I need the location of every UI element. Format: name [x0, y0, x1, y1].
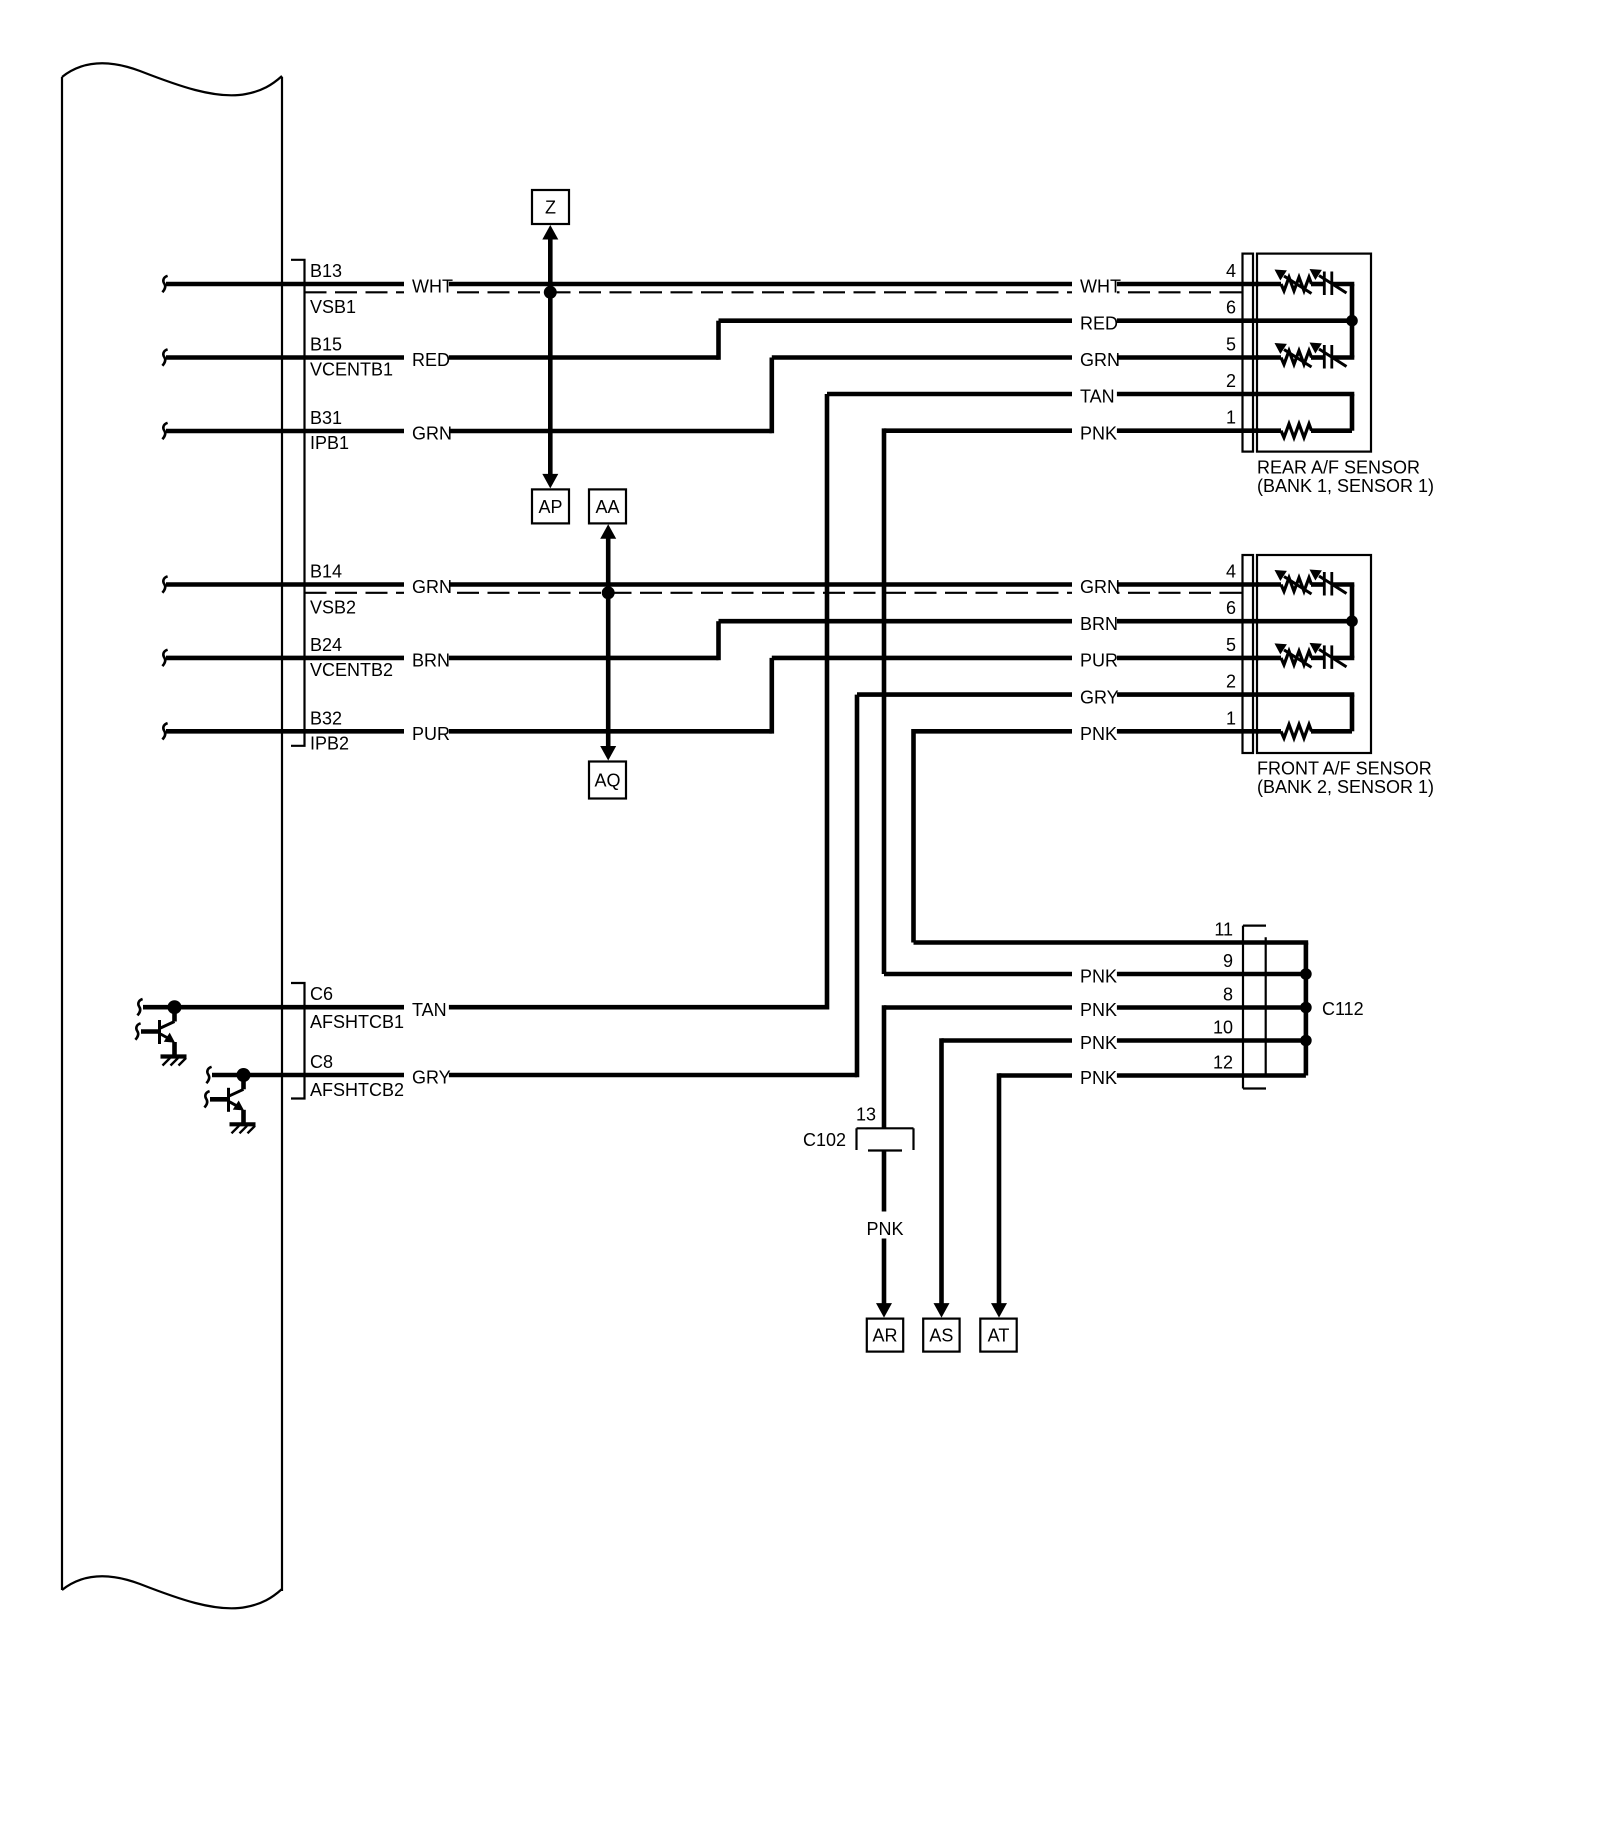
off-page connector AT	[980, 1319, 1016, 1352]
svg-text:GRY: GRY	[412, 1068, 451, 1088]
wire color label GRN (right) y=357.5	[1072, 346, 1117, 370]
arrowhead down into AP	[542, 474, 558, 489]
svg-text:13: 13	[856, 1105, 876, 1125]
wire color label WHT at B13	[404, 273, 449, 297]
svg-text:GRY: GRY	[1080, 687, 1119, 707]
svg-text:12: 12	[1213, 1053, 1233, 1073]
wire color label RED (right) y=320.7	[1072, 309, 1117, 333]
svg-text:PUR: PUR	[1080, 651, 1118, 671]
wire color label GRN at B31	[404, 420, 449, 444]
shield drain line AA to AQ	[606, 536, 611, 749]
arrowhead up into AA	[600, 524, 616, 539]
wire color label PNK (right) y=1075.5	[1072, 1064, 1117, 1088]
svg-text:AQ: AQ	[594, 771, 620, 791]
wire color label PNK (right) y=1040.5	[1072, 1029, 1117, 1053]
wire color label PUR at B32	[404, 720, 449, 744]
wire color label PNK (right) y=731.3	[1072, 720, 1117, 744]
arrowhead down into AQ	[600, 746, 616, 761]
svg-text:GRN: GRN	[412, 577, 452, 597]
svg-text:2: 2	[1226, 371, 1236, 391]
ECU connector B bracket (pins B13-B32)	[291, 260, 305, 746]
svg-text:PNK: PNK	[1080, 1033, 1117, 1053]
svg-text:B14: B14	[310, 562, 342, 582]
wire PNK C112 pin 10 to AS	[942, 1038, 1306, 1306]
wire PNK C112 pin 12 to AT	[999, 1073, 1306, 1306]
shield (dashed) line for VSB1/WHT wire	[305, 291, 1243, 293]
svg-text:4: 4	[1226, 261, 1236, 281]
junction dot shield to Z/AP drain	[544, 286, 557, 299]
svg-text:RED: RED	[412, 350, 450, 370]
wire color label PUR (right) y=657.9	[1072, 646, 1117, 670]
wire B32 IPB2 PUR (ECU to front sensor pin 5)	[162, 658, 1259, 740]
off-page connector Z	[532, 190, 569, 224]
rear A/F sensor box	[1257, 254, 1371, 452]
svg-text:C8: C8	[310, 1052, 333, 1072]
wire PNK C112 pin 8 to C102 pin 13 and AR	[884, 1005, 1306, 1306]
rear A/F sensor connector	[1243, 254, 1254, 452]
wire PNK rear sensor pin 1 to C112 pin 9	[884, 428, 1306, 974]
svg-text:AR: AR	[872, 1326, 897, 1346]
C112 internal bus joining pins 11,9,8,10,12	[1304, 943, 1309, 1076]
shield drain line Z to AP	[548, 238, 553, 477]
svg-text:PNK: PNK	[1080, 967, 1117, 987]
svg-text:AS: AS	[929, 1326, 953, 1346]
connector C112 symbol	[1243, 926, 1266, 1089]
front A/F sensor connector	[1243, 555, 1254, 753]
svg-text:PNK: PNK	[1080, 423, 1117, 443]
wire color label RED at B15	[404, 346, 449, 370]
svg-text:9: 9	[1223, 951, 1233, 971]
svg-text:5: 5	[1226, 635, 1236, 655]
wire PNK front sensor pin 1 to C112 pin 11	[914, 729, 1309, 943]
svg-text:5: 5	[1226, 335, 1236, 355]
svg-text:PNK: PNK	[867, 1219, 904, 1239]
svg-text:AP: AP	[538, 497, 562, 517]
arrowhead down into AS	[934, 1303, 950, 1318]
front sensor heater resistor (pins 1-2)	[1257, 725, 1352, 739]
front A/F sensor cell B (pins 5-6): sensor cell (variable resistor + cell electrodes)	[1257, 638, 1354, 669]
arrowhead down into AT	[991, 1303, 1007, 1318]
wire color label PNK (right) y=1007.5	[1072, 996, 1117, 1020]
svg-text:2: 2	[1226, 672, 1236, 692]
wire B15 VCENTB1 RED (ECU to rear sensor pin 6)	[162, 321, 1352, 366]
wire C8 AFSHTCB2 GRY (ECU to front sensor pin 2)	[206, 695, 1354, 1084]
wire B24 VCENTB2 BRN (ECU to front sensor pin 6)	[162, 621, 1352, 666]
svg-text:B31: B31	[310, 408, 342, 428]
wire color label GRY (right) y=694.6	[1072, 683, 1117, 707]
svg-text:AA: AA	[595, 497, 619, 517]
junction dot front sensor pins 4-5-6	[1346, 615, 1358, 627]
svg-text:WHT: WHT	[1080, 277, 1121, 297]
svg-text:(BANK 1, SENSOR 1): (BANK 1, SENSOR 1)	[1257, 476, 1434, 496]
wire color label GRY at C8	[404, 1064, 449, 1088]
wire color label BRN at B24	[404, 646, 449, 670]
junction dot C112 pin 10 on bus	[1300, 1035, 1312, 1047]
front A/F sensor cell A (pins 4-6): sensor cell (variable resistor + cell electrodes)	[1257, 564, 1354, 595]
off-page connector AA	[589, 489, 626, 523]
junction dot Q1 collector on TAN wire	[168, 1000, 182, 1014]
svg-text:PNK: PNK	[1080, 724, 1117, 744]
svg-text:B15: B15	[310, 335, 342, 355]
svg-text:BRN: BRN	[1080, 614, 1118, 634]
wire color label PNK (right) y=430.7	[1072, 419, 1117, 443]
svg-text:11: 11	[1214, 920, 1233, 940]
svg-text:6: 6	[1226, 598, 1236, 618]
svg-text:C6: C6	[310, 984, 333, 1004]
svg-text:8: 8	[1223, 985, 1233, 1005]
svg-text:1: 1	[1226, 708, 1236, 728]
svg-text:AFSHTCB2: AFSHTCB2	[310, 1080, 404, 1100]
svg-text:4: 4	[1226, 562, 1236, 582]
junction dot shield to AA/AQ drain	[602, 586, 615, 599]
svg-text:PNK: PNK	[1080, 1000, 1117, 1020]
wire color label PNK (C102 to AR)	[864, 1212, 908, 1239]
svg-text:REAR A/F SENSOR: REAR A/F SENSOR	[1257, 458, 1420, 478]
svg-text:(BANK 2, SENSOR 1): (BANK 2, SENSOR 1)	[1257, 777, 1434, 797]
off-page connector AR	[867, 1319, 903, 1352]
svg-text:VCENTB1: VCENTB1	[310, 360, 393, 380]
wire color label GRN (right) y=584.5	[1072, 573, 1117, 597]
junction dot C112 pin 9 on bus	[1300, 968, 1312, 980]
connector C102 symbol (pin 13)	[857, 1128, 914, 1150]
rear sensor internal vertical pins 4/5 to pin 6	[1350, 284, 1355, 358]
off-page connector AP	[532, 489, 569, 523]
svg-text:AT: AT	[988, 1326, 1010, 1346]
front sensor internal vertical pins 4/5 to pin 6	[1350, 585, 1355, 658]
ECU / PCM block (torn vertical band)	[62, 63, 282, 1608]
svg-text:1: 1	[1226, 408, 1236, 428]
svg-text:GRN: GRN	[1080, 350, 1120, 370]
Q1 AFSHTCB1 driver: ECU driver transistor	[135, 1005, 186, 1066]
svg-text:B13: B13	[310, 261, 342, 281]
wire B13 VSB1 WHT (ECU to rear sensor pin 4)	[162, 276, 1259, 292]
svg-text:TAN: TAN	[1080, 387, 1115, 407]
svg-text:IPB1: IPB1	[310, 433, 349, 453]
svg-text:VSB1: VSB1	[310, 297, 356, 317]
rear A/F sensor cell A (pins 4-6): sensor cell (variable resistor + cell electrodes)	[1257, 264, 1354, 295]
junction dot C112 pin 8 on bus	[1300, 1002, 1312, 1014]
wire color label TAN (right) y=394	[1072, 383, 1117, 407]
rear sensor heater resistor (pins 1-2)	[1257, 424, 1352, 438]
svg-text:B24: B24	[310, 635, 342, 655]
svg-text:VCENTB2: VCENTB2	[310, 660, 393, 680]
shield (dashed) line for VSB2/GRN wire	[305, 592, 1243, 594]
junction dot rear sensor pins 4-5-6	[1346, 315, 1358, 327]
off-page connector AQ	[589, 762, 626, 799]
front A/F sensor box	[1257, 555, 1371, 753]
junction dot Q2 collector on GRY wire	[237, 1068, 251, 1082]
ECU connector C bracket (pins C6-C8)	[291, 983, 305, 1099]
arrowhead up into Z	[542, 225, 558, 240]
wire color label BRN (right) y=621.2	[1072, 610, 1117, 634]
svg-text:TAN: TAN	[412, 1000, 447, 1020]
svg-text:C112: C112	[1322, 999, 1364, 1019]
svg-text:6: 6	[1226, 298, 1236, 318]
svg-text:IPB2: IPB2	[310, 733, 349, 753]
svg-text:AFSHTCB1: AFSHTCB1	[310, 1012, 404, 1032]
wire C6 AFSHTCB1 TAN (ECU to rear sensor pin 2)	[137, 394, 1354, 1015]
wire color label WHT (right) y=284	[1072, 273, 1117, 297]
ground symbol (Q2 AFSHTCB2 driver)	[230, 1122, 256, 1126]
svg-text:10: 10	[1213, 1018, 1233, 1038]
svg-text:PNK: PNK	[1080, 1068, 1117, 1088]
svg-text:FRONT A/F SENSOR: FRONT A/F SENSOR	[1257, 759, 1432, 779]
svg-text:WHT: WHT	[412, 277, 453, 297]
svg-text:Z: Z	[545, 198, 556, 218]
wire B31 IPB1 GRN (ECU to rear sensor pin 5)	[162, 358, 1259, 440]
svg-text:B32: B32	[310, 708, 342, 728]
Q2 AFSHTCB2 driver: ECU driver transistor	[204, 1073, 255, 1134]
svg-text:C102: C102	[803, 1130, 846, 1150]
svg-text:BRN: BRN	[412, 651, 450, 671]
svg-text:GRN: GRN	[1080, 577, 1120, 597]
wire color label PNK (right) y=974	[1072, 963, 1117, 987]
wire color label GRN at B14	[404, 573, 449, 597]
arrowhead down into AR	[876, 1303, 892, 1318]
off-page connector AS	[923, 1319, 959, 1352]
svg-text:GRN: GRN	[412, 424, 452, 444]
rear A/F sensor cell B (pins 5-6): sensor cell (variable resistor + cell electrodes)	[1257, 337, 1354, 368]
wire B14 VSB2 GRN (ECU to front sensor pin 4)	[162, 576, 1259, 592]
svg-text:PUR: PUR	[412, 724, 450, 744]
wire color label TAN at C6	[404, 996, 449, 1020]
svg-text:VSB2: VSB2	[310, 598, 356, 618]
svg-text:RED: RED	[1080, 313, 1118, 333]
ground symbol (Q1 AFSHTCB1 driver)	[161, 1054, 187, 1058]
